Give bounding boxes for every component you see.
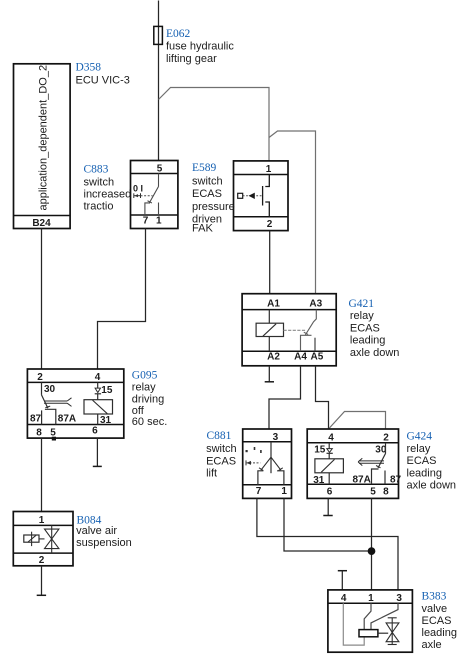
svg-text:tractio: tractio xyxy=(84,201,114,213)
label C881 xyxy=(206,430,237,480)
svg-text:7: 7 xyxy=(256,486,262,497)
svg-text:4: 4 xyxy=(95,372,101,383)
relay G095 xyxy=(27,369,123,441)
label E062 xyxy=(166,28,234,65)
svg-text:1: 1 xyxy=(281,486,287,497)
svg-text:1: 1 xyxy=(39,515,45,526)
svg-text:valve air: valve air xyxy=(76,525,117,537)
pin 3 stem xyxy=(270,442,272,473)
pin 4 path xyxy=(343,603,364,645)
svg-text:lifting gear: lifting gear xyxy=(166,53,217,65)
svg-text:B24: B24 xyxy=(32,218,51,229)
ground B084 xyxy=(37,594,46,596)
wire G424 pin5 to B383 pin1 xyxy=(371,498,373,590)
A5 stub xyxy=(314,338,316,352)
svg-text:driving: driving xyxy=(132,393,164,405)
actuation dashed link xyxy=(243,195,262,197)
wire branch to E589 pin1 xyxy=(159,88,270,161)
svg-text:D358: D358 xyxy=(76,62,102,74)
dashed actuation link xyxy=(284,329,307,331)
svg-text:switch: switch xyxy=(84,177,115,189)
svg-text:switch: switch xyxy=(206,443,237,455)
svg-text:A4: A4 xyxy=(294,352,307,363)
pin 1 terminal xyxy=(277,471,284,485)
svg-text:A3: A3 xyxy=(309,299,322,310)
svg-text:fuse hydraulic: fuse hydraulic xyxy=(166,40,234,52)
wire branch to G421 A3 xyxy=(269,131,316,294)
switch lever xyxy=(149,187,159,204)
contact A3 lever xyxy=(305,310,316,335)
pin 2 contact xyxy=(265,202,269,217)
svg-text:6: 6 xyxy=(327,486,333,497)
wire E589 pin2 to G421 A1 xyxy=(269,231,271,294)
svg-text:30: 30 xyxy=(44,384,56,395)
svg-text:6: 6 xyxy=(92,426,98,437)
wire A4 to C881 pin 3 xyxy=(269,366,301,429)
pin 7 terminal xyxy=(258,471,264,485)
svg-text:5: 5 xyxy=(157,164,163,175)
svg-text:ECAS: ECAS xyxy=(192,188,222,200)
coil xyxy=(328,453,330,459)
ground G424 xyxy=(323,515,332,517)
svg-text:60 sec.: 60 sec. xyxy=(132,416,167,428)
actuator arrow xyxy=(245,460,247,465)
svg-text:2: 2 xyxy=(39,555,45,566)
valve body xyxy=(51,525,53,553)
pin 15 connector xyxy=(97,382,99,388)
svg-text:4: 4 xyxy=(328,432,334,443)
frame tap above B383 pin4 xyxy=(338,570,347,572)
switch C881 xyxy=(243,429,292,498)
wire branch to G424 pin 2 xyxy=(329,412,386,430)
svg-text:application_dependent_DO_2: application_dependent_DO_2 xyxy=(38,65,50,211)
wire B24 to G095 pin 2 xyxy=(41,229,43,370)
svg-text:0 I: 0 I xyxy=(133,184,143,194)
wire G424 pin6 to ground xyxy=(327,498,329,515)
A4 terminal xyxy=(301,335,312,351)
wire A5 to G424 pin 4 xyxy=(316,366,329,429)
wire supply vertical to C883 pin 5 xyxy=(158,1,160,161)
fuse E062 xyxy=(154,26,163,44)
svg-text:5: 5 xyxy=(50,427,56,438)
pin 5 stub xyxy=(158,174,160,187)
wire G095 pin6 to ground xyxy=(96,438,98,466)
pin 30 line xyxy=(41,382,43,395)
svg-text:G095: G095 xyxy=(132,370,158,382)
ground G095 xyxy=(93,465,102,467)
87A hook terminal xyxy=(45,409,56,424)
wire G095 pin8 to B084 xyxy=(41,438,43,511)
pin 7 terminal xyxy=(145,203,150,215)
switch C883 xyxy=(131,161,178,229)
svg-text:G421: G421 xyxy=(349,298,375,310)
svg-text:valve: valve xyxy=(422,603,448,615)
87A terminal xyxy=(372,469,379,484)
svg-text:87: 87 xyxy=(390,475,402,486)
label G095 xyxy=(132,370,167,428)
delay symbol xyxy=(44,400,67,402)
svg-text:leading: leading xyxy=(350,335,385,347)
wire C881 pin1 to junction xyxy=(284,498,372,551)
svg-text:switch: switch xyxy=(192,176,223,188)
svg-text:pressure: pressure xyxy=(192,201,235,213)
svg-text:8: 8 xyxy=(36,427,42,438)
svg-text:E589: E589 xyxy=(192,162,217,174)
rocker levers xyxy=(261,457,271,470)
svg-text:1: 1 xyxy=(156,216,162,227)
svg-text:increased: increased xyxy=(84,189,132,201)
svg-text:3: 3 xyxy=(396,593,402,604)
svg-text:B383: B383 xyxy=(422,591,447,603)
actuator arrow xyxy=(133,193,135,198)
arrowhead xyxy=(249,193,255,199)
pin 1 stub xyxy=(158,203,160,216)
valve element xyxy=(391,618,393,645)
svg-text:relay: relay xyxy=(132,382,156,394)
pin 1 path xyxy=(364,603,371,629)
svg-text:1: 1 xyxy=(368,593,374,604)
pressure element square xyxy=(238,193,243,198)
contact bar xyxy=(262,186,264,206)
svg-text:87A: 87A xyxy=(58,414,76,425)
wire C881 pin7 to B383 pin3 xyxy=(257,498,398,590)
svg-text:15: 15 xyxy=(314,445,326,456)
svg-text:ECAS: ECAS xyxy=(350,322,380,334)
svg-text:ECAS: ECAS xyxy=(206,455,236,467)
junction square below pin 5 xyxy=(52,437,56,441)
svg-text:ECAS: ECAS xyxy=(422,615,452,627)
87 stub xyxy=(384,471,386,485)
svg-text:off: off xyxy=(132,405,145,417)
svg-text:1: 1 xyxy=(266,164,272,175)
svg-text:ECAS: ECAS xyxy=(407,455,437,467)
relay G424 xyxy=(307,429,401,498)
svg-text:G424: G424 xyxy=(407,431,433,443)
svg-text:2: 2 xyxy=(37,372,43,383)
svg-text:axle down: axle down xyxy=(350,347,400,359)
label B383 xyxy=(422,591,457,652)
svg-text:87: 87 xyxy=(30,414,42,425)
svg-text:ECU VIC-3: ECU VIC-3 xyxy=(76,75,130,87)
label C883 xyxy=(84,164,132,213)
svg-text:A1: A1 xyxy=(267,299,280,310)
wire B084 pin2 to ground xyxy=(41,566,43,596)
ECU D358 box xyxy=(14,64,71,229)
delay symbol xyxy=(359,460,384,462)
svg-text:7: 7 xyxy=(143,216,149,227)
valve B383 xyxy=(328,590,413,652)
svg-text:A5: A5 xyxy=(311,352,324,363)
label B084 xyxy=(76,515,132,549)
solenoid coil xyxy=(24,535,39,542)
junction node xyxy=(368,547,376,555)
87 stub xyxy=(41,410,43,424)
svg-text:axle down: axle down xyxy=(407,480,457,492)
contact lever xyxy=(42,395,48,408)
svg-text:87A: 87A xyxy=(353,475,371,486)
label E589 xyxy=(192,162,235,235)
svg-text:suspension: suspension xyxy=(76,537,132,549)
coil K xyxy=(268,310,270,324)
label G424 xyxy=(407,431,457,492)
pin 1 contact xyxy=(265,175,269,187)
svg-text:5: 5 xyxy=(370,486,376,497)
svg-text:31: 31 xyxy=(100,415,112,426)
svg-text:E062: E062 xyxy=(166,28,191,40)
svg-text:relay: relay xyxy=(407,443,431,455)
svg-text:C881: C881 xyxy=(207,430,232,442)
position dots xyxy=(246,450,248,452)
svg-text:3: 3 xyxy=(273,432,279,443)
svg-text:31: 31 xyxy=(313,475,325,486)
svg-text:2: 2 xyxy=(383,432,389,443)
svg-text:2: 2 xyxy=(267,219,273,230)
svg-text:relay: relay xyxy=(350,310,374,322)
svg-text:C883: C883 xyxy=(84,164,109,176)
svg-text:lift: lift xyxy=(206,468,217,480)
svg-text:15: 15 xyxy=(101,385,113,396)
svg-text:8: 8 xyxy=(383,486,389,497)
wire A2 to ground xyxy=(268,366,270,382)
ground A2 xyxy=(265,381,274,383)
pin 3 path xyxy=(371,603,398,629)
coil xyxy=(97,394,99,400)
label G421 xyxy=(349,298,400,359)
switch E589 xyxy=(234,161,289,231)
svg-text:4: 4 xyxy=(341,593,347,604)
svg-text:leading: leading xyxy=(407,467,442,479)
svg-text:A2: A2 xyxy=(267,352,280,363)
label D358 xyxy=(76,62,130,87)
valve B084 xyxy=(13,512,73,566)
svg-text:axle: axle xyxy=(422,639,442,651)
svg-text:FAK: FAK xyxy=(192,223,213,235)
wire C883 pin7 to G095 pin 4 xyxy=(98,229,146,370)
relay G421 xyxy=(242,294,336,366)
svg-text:leading: leading xyxy=(422,627,457,639)
solenoid coil xyxy=(359,630,378,637)
